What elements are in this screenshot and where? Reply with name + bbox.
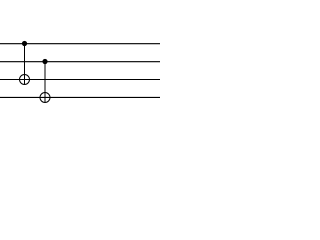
control dot CNOT1 on q0 xyxy=(22,41,27,46)
target XOR CNOT1 on q2 xyxy=(20,75,30,85)
control dot CNOT2 on q1 xyxy=(42,59,47,64)
wire q1 xyxy=(0,61,160,63)
wire CNOT2 vertical xyxy=(44,62,46,103)
wire q3 xyxy=(0,96,160,98)
wire q0 xyxy=(0,43,160,45)
wire q2 xyxy=(0,79,160,81)
target XOR CNOT2 on q3 xyxy=(40,93,50,103)
wire CNOT1 vertical xyxy=(24,44,26,85)
